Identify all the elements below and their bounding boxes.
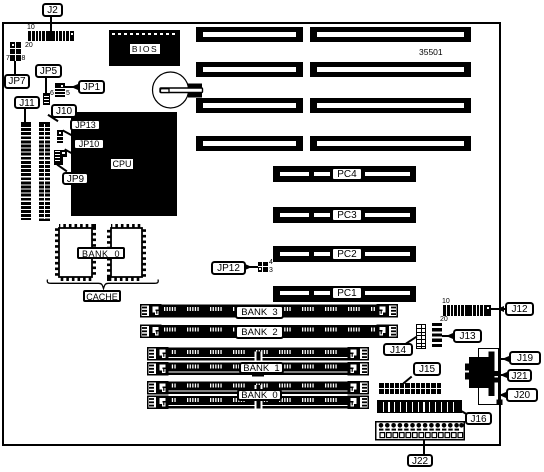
wire leader JP10 — [64, 149, 75, 156]
ISA slot row 1 short — [196, 27, 303, 42]
jumper JP13 — [57, 130, 63, 143]
SIMM slot row 5 — [148, 381, 369, 395]
pin number 4 (JP12) — [269, 259, 273, 267]
keyboard connector outline box — [478, 348, 499, 405]
connector JP5 label — [35, 64, 62, 78]
connector J12: pin number 10 — [442, 298, 450, 306]
SIMM slot row 3 — [148, 347, 369, 361]
connector J21 label — [507, 369, 532, 382]
ISA slot row 3 long — [310, 98, 471, 113]
wire leader J10 — [47, 114, 58, 122]
connector J14 — [416, 324, 426, 349]
connector J14 label — [383, 343, 413, 356]
wire leader J16 — [457, 408, 468, 416]
board part number 35501 — [419, 48, 443, 56]
CPU chip — [71, 112, 177, 216]
wire leader J11 — [24, 109, 26, 122]
connector JP12 label — [211, 261, 246, 275]
ISA slot row 2 short — [196, 62, 303, 77]
connector J12 label — [505, 302, 534, 316]
connector J10 — [39, 122, 50, 221]
battery — [148, 68, 206, 113]
pin number 10 (J2) — [27, 24, 35, 32]
PC3 label — [331, 208, 363, 222]
PC4 slot — [273, 166, 416, 182]
CPU label — [110, 158, 134, 170]
wire leader J2 — [50, 16, 52, 32]
SIMM slot BANK 3 — [141, 304, 398, 318]
wire leader JP7 — [14, 61, 16, 74]
connector J15 — [379, 383, 441, 394]
connector J15 label — [413, 362, 441, 376]
connector J22 — [374, 420, 466, 442]
PC1 label — [331, 286, 363, 300]
connector J2 label — [42, 3, 63, 17]
wire leader JP5 — [45, 78, 47, 94]
wire leader J12 — [491, 308, 505, 310]
PC2 slot — [273, 246, 416, 262]
connector J10 label — [51, 104, 77, 118]
BIOS label — [129, 43, 161, 55]
ISA slot row 2 long — [310, 62, 471, 77]
jumper JP12 — [258, 262, 268, 272]
connector J19 label — [509, 351, 541, 365]
connector J20 label — [506, 388, 538, 402]
wire leader J19 — [500, 358, 510, 360]
ISA slot row 4 long — [310, 136, 471, 151]
connector JP7 label — [4, 74, 30, 89]
wire leader J20 — [500, 394, 507, 396]
pin number 6 (JP1) — [50, 90, 54, 98]
wire leader J13 — [442, 335, 453, 337]
SIMM sockets (6 rows) — [140, 304, 400, 410]
wire leader J21 — [500, 374, 508, 376]
keyboard connector J19/J21/J20 body — [463, 348, 504, 408]
PC2 label — [331, 247, 363, 261]
CACHE label — [83, 290, 121, 302]
ISA slot row 3 short — [196, 98, 303, 113]
connector J12: pin number 20 — [440, 316, 448, 324]
pin number 8 (JP7) — [22, 55, 26, 63]
connector J22 label — [407, 454, 433, 467]
BANK 0 label — [237, 389, 282, 401]
wire leader J15 — [403, 375, 413, 384]
connector J16 label — [465, 412, 492, 425]
wire leader J14 — [406, 336, 418, 345]
jumper JP9/JP10 block — [54, 150, 67, 165]
BANK 1 label — [239, 362, 284, 374]
PC4 label — [331, 167, 363, 181]
connector J16 — [377, 400, 462, 413]
connector JP1 label — [78, 80, 105, 94]
jumper JP5 — [43, 93, 50, 105]
connector JP13 label — [70, 119, 101, 131]
cache chip left and right — [50, 219, 150, 286]
BIOS chip — [109, 30, 180, 66]
wire leader JP9 — [57, 164, 68, 173]
PC3 slot — [273, 207, 416, 223]
PC1 slot — [273, 286, 416, 302]
ISA slot row 4 short — [196, 136, 303, 151]
SIMM slot BANK 0 — [148, 396, 369, 410]
connector JP10 label — [73, 138, 105, 150]
pin number 5 (JP1) — [66, 90, 70, 98]
ISA slot row 1 long — [310, 27, 471, 42]
pin number 20 (J2) — [25, 42, 33, 50]
BANK 3 label — [235, 305, 284, 319]
jumper JP7 — [10, 42, 21, 61]
BANK 2 label — [235, 325, 284, 339]
connector J13 label — [453, 329, 482, 343]
BANK 0 cache label — [77, 247, 125, 259]
cache brace — [46, 278, 160, 291]
connector J13 — [432, 323, 442, 349]
pin number 3 (JP12) — [269, 267, 273, 275]
wire leader JP1 — [65, 86, 78, 88]
SIMM slot BANK 1 — [148, 362, 369, 377]
pin number 7 (JP7) — [6, 55, 10, 63]
connector J12 — [443, 305, 491, 316]
jumper JP1 — [55, 83, 65, 97]
wire leader JP13 — [62, 130, 73, 137]
wire leader JP12 — [246, 266, 258, 268]
connector J11 label — [14, 96, 40, 109]
SIMM slot BANK 2 — [141, 325, 398, 339]
connector JP9 label — [62, 172, 89, 185]
wire leader J22 — [423, 440, 425, 454]
connector J2 — [28, 31, 75, 41]
connector J11 — [21, 122, 31, 220]
